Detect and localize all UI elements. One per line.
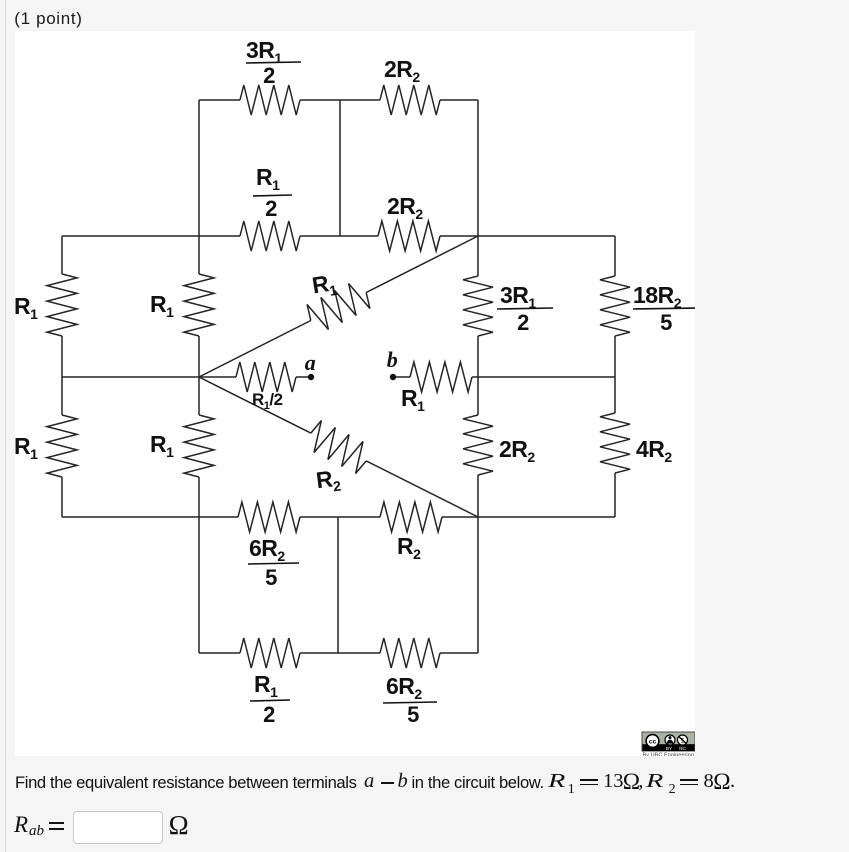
wire top rail right segment xyxy=(440,99,478,101)
node b terminal dot xyxy=(390,374,396,380)
svg-text:2: 2 xyxy=(265,196,277,221)
wire top rail middle segment xyxy=(300,99,380,101)
svg-text:2: 2 xyxy=(263,63,275,88)
wire second rail far-left segment xyxy=(62,235,240,237)
wire resistor-to-terminal-a lead xyxy=(296,376,308,378)
svg-text:R1: R1 xyxy=(254,671,278,700)
wire right column lower lead xyxy=(614,377,616,413)
wire second rail middle segment xyxy=(300,235,378,237)
svg-text:6R2: 6R2 xyxy=(249,535,285,564)
wire diagonal upper lead to corner xyxy=(366,236,478,293)
wire diagonal upper lead from node xyxy=(199,321,311,378)
wire fourth column top segment xyxy=(477,100,479,236)
fraction bar (fourth column) xyxy=(497,308,553,309)
svg-text:2: 2 xyxy=(263,702,275,727)
resistor 3R1/2 zigzag (top rail) xyxy=(240,85,300,115)
wire mid rail right segment xyxy=(478,376,615,378)
svg-text:18R2: 18R2 xyxy=(633,282,682,311)
svg-text:5: 5 xyxy=(407,702,419,727)
wire fourth column middle lead xyxy=(477,336,479,415)
wire bottom rail middle segment xyxy=(300,652,380,654)
left page border line xyxy=(5,0,6,852)
svg-text:cc: cc xyxy=(649,738,657,745)
resistor 4R2 zigzag (right column) xyxy=(600,413,630,473)
wire bottom rail right segment xyxy=(440,652,478,654)
resistor 6R2/5 zigzag (bottom rail) xyxy=(380,638,440,668)
svg-text:R2: R2 xyxy=(397,533,421,562)
wire diagonal lower lead from node xyxy=(199,377,311,433)
fraction bar (top-left) xyxy=(246,62,301,63)
fraction bar (right column) xyxy=(633,308,701,309)
wire right column middle lead xyxy=(614,336,616,377)
wire fourth column lower lead xyxy=(477,475,479,517)
resistor R1/2 zigzag (bottom rail) xyxy=(240,638,300,668)
svg-text:R1/2: R1/2 xyxy=(252,390,283,412)
CC BY-NC license badge xyxy=(642,732,695,758)
resistor R1 zigzag (left column upper) xyxy=(47,274,77,336)
wire bottom rail left segment xyxy=(199,652,240,654)
wire fourth rail middle segment xyxy=(300,516,380,518)
svg-text:By UBC Engineering: By UBC Engineering xyxy=(643,752,694,756)
svg-text:R1: R1 xyxy=(256,164,280,193)
svg-text:R1: R1 xyxy=(150,291,174,320)
svg-text:2R2: 2R2 xyxy=(384,56,420,85)
resistor 6R2/5 zigzag (fourth rail) xyxy=(238,502,300,532)
wire right column upper lead xyxy=(614,236,616,276)
answer row xyxy=(14,812,28,838)
resistor R2 zigzag (fourth rail) xyxy=(380,502,442,532)
wire terminal-b lead xyxy=(393,376,410,378)
resistor 2R2 zigzag (top rail) xyxy=(380,85,440,115)
svg-text:NC: NC xyxy=(679,746,686,751)
circuit image white panel xyxy=(15,31,695,756)
wire center column bottom segment xyxy=(337,517,339,653)
resistor R1 zigzag (b branch) xyxy=(410,362,472,392)
wire fourth column upper lead xyxy=(477,236,479,276)
fraction bar (second rail) xyxy=(253,195,292,196)
wire fourth rail far-left segment xyxy=(62,516,238,518)
problem score text xyxy=(14,9,82,29)
wire diagonal lower lead to corner xyxy=(366,461,478,517)
resistor R1/2 zigzag (a branch) xyxy=(236,362,296,392)
question paragraph xyxy=(15,773,357,793)
resistor 2R2 zigzag (second rail) xyxy=(378,221,440,251)
resistor R1 zigzag (left column lower) xyxy=(47,415,77,477)
wire b-branch to node xyxy=(472,376,478,378)
svg-text:BY: BY xyxy=(666,746,672,751)
svg-text:6R2: 6R2 xyxy=(386,673,422,702)
wire second column bottom segment xyxy=(198,517,200,653)
svg-text:2: 2 xyxy=(517,310,529,335)
resistor R1 zigzag (second column lower) xyxy=(184,415,214,477)
fraction bar (fourth rail left fraction) xyxy=(248,563,299,564)
wire center column top segment xyxy=(339,100,341,236)
wire left column upper-lower lead xyxy=(61,336,63,415)
wire right column bottom lead xyxy=(614,473,616,517)
label R1 (upper diagonal) xyxy=(310,269,338,301)
svg-text:R1: R1 xyxy=(15,433,38,462)
wire fourth rail right segment xyxy=(442,516,615,518)
wire fourth column bottom segment xyxy=(477,517,479,653)
wire second rail right segment xyxy=(440,235,615,237)
svg-text:R1: R1 xyxy=(15,293,38,322)
svg-text:a: a xyxy=(305,350,316,375)
wire second column lower lead xyxy=(198,477,200,517)
wire second column upper lead xyxy=(198,236,200,274)
svg-text:2R2: 2R2 xyxy=(387,193,423,222)
fraction bar (bottom rail left) xyxy=(250,700,290,701)
label R2 (lower diagonal) xyxy=(315,465,342,497)
svg-text:3R1: 3R1 xyxy=(500,282,536,311)
resistor 18R2/5 zigzag (right column) xyxy=(600,276,630,336)
svg-text:4R2: 4R2 xyxy=(636,436,672,465)
wire left column bottom lead xyxy=(61,477,63,517)
wire second column top segment xyxy=(198,100,200,236)
resistor R1/2 zigzag (second rail) xyxy=(240,221,300,251)
resistor R1 zigzag (upper diagonal) xyxy=(307,284,370,330)
resistor R2 zigzag (lower diagonal) xyxy=(311,421,366,474)
resistor 3R1/2 zigzag (fourth column) xyxy=(463,276,493,336)
wire top rail left segment xyxy=(199,99,240,101)
svg-text:R1: R1 xyxy=(150,431,174,460)
node a terminal dot xyxy=(308,374,314,380)
wire node-to-resistor lead (a branch) xyxy=(199,376,236,378)
wire left column upper lead xyxy=(61,236,63,274)
svg-text:5: 5 xyxy=(265,565,277,590)
fraction bar (bottom rail right) xyxy=(383,702,437,703)
svg-text:5: 5 xyxy=(660,310,672,335)
svg-text:R1: R1 xyxy=(310,269,338,301)
svg-text:R2: R2 xyxy=(315,465,342,497)
wire second column middle lead xyxy=(198,336,200,415)
resistor R1 zigzag (second column upper) xyxy=(184,274,214,336)
svg-text:2R2: 2R2 xyxy=(499,436,535,465)
wire mid rail left segment xyxy=(62,376,199,378)
resistor 2R2 zigzag (fourth column) xyxy=(463,415,493,475)
svg-text:b: b xyxy=(387,347,398,372)
